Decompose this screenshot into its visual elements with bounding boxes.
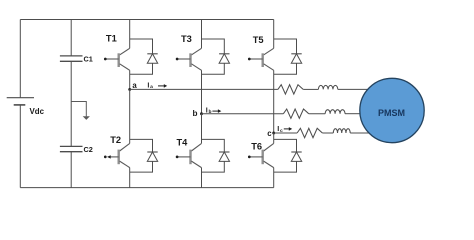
- freewheeling diode of T5: [274, 39, 302, 74]
- svg-text:a: a: [150, 85, 153, 90]
- wire phase b segment 2: [309, 113, 326, 115]
- wire node a to T2: [129, 89, 131, 143]
- motor PMSM: [360, 78, 424, 142]
- svg-text:PMSM: PMSM: [378, 108, 405, 118]
- wire T5 collector drop: [273, 20, 275, 49]
- wire T6 emitter to bottom rail: [273, 168, 275, 188]
- label C1: [84, 55, 93, 64]
- gate lead of T3: [176, 58, 191, 61]
- resistor phase c: [297, 128, 322, 137]
- node a junction dot: [128, 88, 131, 91]
- label T6: [251, 141, 262, 151]
- svg-text:C1: C1: [84, 55, 93, 64]
- gate lead of T6: [248, 156, 263, 159]
- wire node c to T6: [273, 133, 275, 143]
- wire phase a segment 3: [338, 88, 369, 90]
- freewheeling diode of T3: [202, 39, 230, 74]
- freewheeling diode of T4: [202, 139, 230, 172]
- wire phase c segment 3: [350, 132, 370, 134]
- label T5: [253, 35, 264, 45]
- gate lead of T1: [104, 58, 119, 61]
- label T1: [106, 34, 117, 44]
- label Vdc: [30, 107, 45, 116]
- current arrow Ic: [277, 124, 292, 134]
- node b junction dot: [200, 112, 203, 115]
- svg-text:T3: T3: [181, 34, 192, 44]
- svg-text:I: I: [277, 124, 279, 133]
- wire phase a segment 1: [130, 88, 278, 90]
- wire phase c segment 2: [322, 132, 333, 134]
- gate lead of T5: [248, 58, 263, 61]
- node c junction dot: [272, 132, 275, 135]
- neutral point arrow: [71, 102, 90, 120]
- svg-text:T5: T5: [253, 35, 264, 45]
- wire phase c segment 1: [274, 132, 297, 134]
- transistor T2: [119, 143, 130, 167]
- label T3: [181, 34, 192, 44]
- wire phase a segment 2: [303, 88, 318, 90]
- freewheeling diode of T2: [130, 139, 158, 172]
- svg-text:c: c: [267, 129, 272, 138]
- gate lead of T2: [104, 155, 119, 158]
- wire T2 emitter to bottom rail: [129, 168, 131, 188]
- transistor T4: [191, 143, 202, 167]
- label T2: [110, 135, 121, 145]
- svg-text:C2: C2: [84, 145, 93, 154]
- wire left branch upper: [19, 20, 21, 98]
- wire T3 collector drop: [201, 20, 203, 49]
- inductor phase a: [318, 85, 337, 89]
- wire phase b segment 3: [345, 113, 361, 115]
- wire node b to T4: [201, 114, 203, 144]
- battery Vdc plates: [7, 98, 34, 105]
- inductor phase b: [325, 110, 345, 114]
- wire T4 emitter to bottom rail: [201, 168, 203, 188]
- transistor T5: [263, 48, 274, 70]
- freewheeling diode of T1: [130, 39, 158, 74]
- current arrow Ia: [147, 80, 167, 90]
- inductor phase c: [333, 129, 350, 133]
- wire capacitor branch middle: [70, 61, 72, 146]
- label node c: [267, 129, 272, 138]
- wire T3 emitter to node b: [201, 70, 203, 113]
- svg-text:c: c: [280, 129, 283, 134]
- freewheeling diode of T6: [274, 139, 302, 172]
- wire T1 emitter to node a: [129, 70, 131, 89]
- wire top DC rail (+): [20, 19, 273, 21]
- wire capacitor branch lower: [70, 152, 72, 188]
- svg-text:T6: T6: [251, 141, 262, 151]
- resistor phase a: [278, 85, 303, 94]
- transistor T3: [191, 48, 202, 70]
- transistor T6: [263, 143, 274, 167]
- svg-text:I: I: [147, 80, 149, 89]
- label node b: [193, 109, 198, 118]
- svg-text:b: b: [193, 109, 198, 118]
- label node a: [132, 81, 137, 90]
- resistor phase b: [283, 109, 308, 118]
- wire left branch lower: [19, 105, 21, 188]
- wire T1 collector drop: [129, 20, 131, 49]
- label T4: [177, 138, 189, 148]
- svg-text:Vdc: Vdc: [30, 107, 45, 116]
- wire phase b segment 1: [202, 113, 284, 115]
- wire capacitor branch upper: [70, 20, 72, 56]
- svg-text:I: I: [206, 105, 208, 114]
- capacitor C1: [60, 56, 83, 61]
- svg-text:b: b: [209, 109, 212, 115]
- svg-text:T4: T4: [177, 138, 189, 148]
- capacitor C2: [60, 146, 83, 151]
- gate lead of T4: [176, 156, 191, 159]
- svg-text:a: a: [132, 81, 137, 90]
- svg-text:T2: T2: [110, 135, 121, 145]
- label C2: [84, 145, 93, 154]
- transistor T1: [119, 48, 130, 70]
- wire T5 emitter to node c: [273, 70, 275, 133]
- wire bottom DC rail (-): [20, 187, 273, 189]
- current arrow Ib: [206, 105, 222, 115]
- svg-text:T1: T1: [106, 34, 117, 44]
